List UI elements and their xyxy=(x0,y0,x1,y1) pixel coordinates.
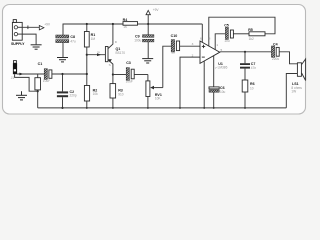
svg-text:220p: 220p xyxy=(70,94,77,98)
svg-text:C5: C5 xyxy=(224,24,229,28)
wire supply minus to ground xyxy=(22,34,36,44)
resistor R4 xyxy=(123,22,148,26)
ground (C9) xyxy=(142,59,153,63)
resistor R5 xyxy=(249,32,265,36)
svg-text:C1: C1 xyxy=(38,62,43,66)
capacitor C9 xyxy=(143,24,154,58)
capacitor C5 xyxy=(225,27,233,39)
wire pin8 to loop xyxy=(209,17,275,46)
wire wiper to C10 xyxy=(163,46,171,87)
svg-text:910: 910 xyxy=(118,93,124,97)
svg-text:J1: J1 xyxy=(11,76,15,80)
svg-text:LM386: LM386 xyxy=(218,66,228,70)
wire pin7 to C6 xyxy=(213,56,215,87)
node input/gate xyxy=(86,73,88,75)
ground (input) xyxy=(16,91,27,100)
connector J2 SUPPLY xyxy=(12,20,22,41)
svg-text:47n: 47n xyxy=(251,66,257,70)
polarity tick on supply plus wire xyxy=(27,26,29,30)
svg-text:10: 10 xyxy=(250,87,254,91)
arrow on gate wire xyxy=(97,53,101,56)
node +9V junction xyxy=(147,23,149,25)
svg-text:1u: 1u xyxy=(171,51,175,55)
svg-text:+9V: +9V xyxy=(153,8,160,12)
bottom ground rail xyxy=(38,107,287,109)
svg-text:C10: C10 xyxy=(171,34,178,38)
capacitor C1 xyxy=(44,69,52,80)
wire C5 to pin1 xyxy=(215,34,225,50)
svg-text:7: 7 xyxy=(215,66,217,70)
transistor Q1 xyxy=(105,24,113,84)
svg-text:8: 8 xyxy=(209,37,211,41)
capacitor C8 xyxy=(56,35,69,57)
+9V supply arrow xyxy=(146,10,150,24)
wire jack tip to C1 xyxy=(17,73,44,75)
node R6 rail xyxy=(244,107,246,109)
node R3 rail xyxy=(112,107,114,109)
arrow on input wire xyxy=(19,73,23,76)
svg-text:100u: 100u xyxy=(134,39,141,43)
resistor (input shunt) xyxy=(35,74,41,91)
top rail +9V net xyxy=(63,24,123,35)
svg-text:10u: 10u xyxy=(224,39,230,43)
wire source to C3 xyxy=(113,74,126,76)
svg-text:C8: C8 xyxy=(70,35,75,39)
svg-text:BS170: BS170 xyxy=(116,51,126,55)
node output junction xyxy=(244,51,246,53)
wire junction to bottom rail xyxy=(37,91,39,108)
resistor R3 xyxy=(110,84,116,108)
node pin2 rail xyxy=(179,107,181,109)
node R1 top rail xyxy=(86,23,88,25)
svg-text:1M: 1M xyxy=(91,37,96,41)
node gate junction xyxy=(86,54,88,56)
svg-text:3: 3 xyxy=(192,42,194,46)
node Q1 drain rail xyxy=(112,23,114,25)
node jack-ground junction xyxy=(37,90,39,92)
node C2 top xyxy=(61,73,63,75)
svg-text:1W: 1W xyxy=(291,90,296,94)
node C6 rail xyxy=(213,107,215,109)
capacitor C3 xyxy=(126,68,148,81)
wire pin6 power xyxy=(201,24,203,43)
svg-text:5: 5 xyxy=(221,48,223,52)
svg-text:C4: C4 xyxy=(273,42,278,46)
svg-text:10u: 10u xyxy=(220,90,226,94)
resistor R6 xyxy=(242,80,248,108)
wire pin2 to ground rail xyxy=(180,57,200,108)
wire pin4 to ground rail xyxy=(203,61,205,108)
svg-text:220u: 220u xyxy=(272,57,279,61)
svg-text:R4: R4 xyxy=(123,18,128,22)
node pin4 rail xyxy=(203,107,205,109)
svg-text:C3: C3 xyxy=(126,61,131,65)
page background xyxy=(0,0,309,122)
capacitor C4 xyxy=(271,46,279,57)
svg-text:10uF: 10uF xyxy=(43,79,50,83)
wire speaker return xyxy=(286,74,297,108)
svg-text:SUPPLY: SUPPLY xyxy=(11,42,25,46)
node C2 bottom rail xyxy=(61,107,63,109)
node RV1 rail xyxy=(147,107,149,109)
potentiometer RV1 xyxy=(146,75,163,108)
svg-text:S: S xyxy=(109,63,111,67)
wire R5 to C5 xyxy=(233,33,249,35)
speaker LS1 xyxy=(297,59,305,81)
schematic card xyxy=(3,5,306,115)
node R2 rail xyxy=(86,107,88,109)
capacitor C10 xyxy=(171,40,200,52)
svg-text:1k2: 1k2 xyxy=(249,37,254,41)
node Q1 source junction xyxy=(112,73,114,75)
wire C4 to speaker xyxy=(279,52,297,64)
svg-text:4: 4 xyxy=(203,66,205,70)
wire gate xyxy=(87,54,106,56)
+9V arrow tag xyxy=(39,26,44,30)
ground (supply) xyxy=(31,45,42,49)
wire rail to opamp xyxy=(148,23,202,25)
svg-text:R5: R5 xyxy=(248,28,253,32)
svg-text:2: 2 xyxy=(192,53,194,57)
wire supply plus to +9V tag xyxy=(22,26,39,28)
svg-text:10K: 10K xyxy=(155,97,162,101)
resistor R2 xyxy=(84,86,89,108)
svg-text:+9V: +9V xyxy=(44,22,51,26)
svg-text:6: 6 xyxy=(200,37,202,41)
svg-text:1: 1 xyxy=(216,43,218,47)
capacitor C7 xyxy=(240,52,250,80)
op-amp U1 xyxy=(200,41,220,63)
capacitor C6 xyxy=(209,87,219,108)
wire C1 to gate node xyxy=(52,73,87,75)
ground (C8) xyxy=(57,58,68,62)
jack J1 xyxy=(13,61,17,75)
resistor R1 xyxy=(84,24,89,86)
capacitor C2 xyxy=(57,74,68,108)
svg-text:47u: 47u xyxy=(70,40,76,44)
wire output pin5 xyxy=(220,51,272,53)
svg-text:10k: 10k xyxy=(93,92,99,96)
svg-text:R6: R6 xyxy=(250,82,255,86)
jack sleeve wire xyxy=(15,74,38,91)
svg-text:10uF: 10uF xyxy=(126,79,133,83)
